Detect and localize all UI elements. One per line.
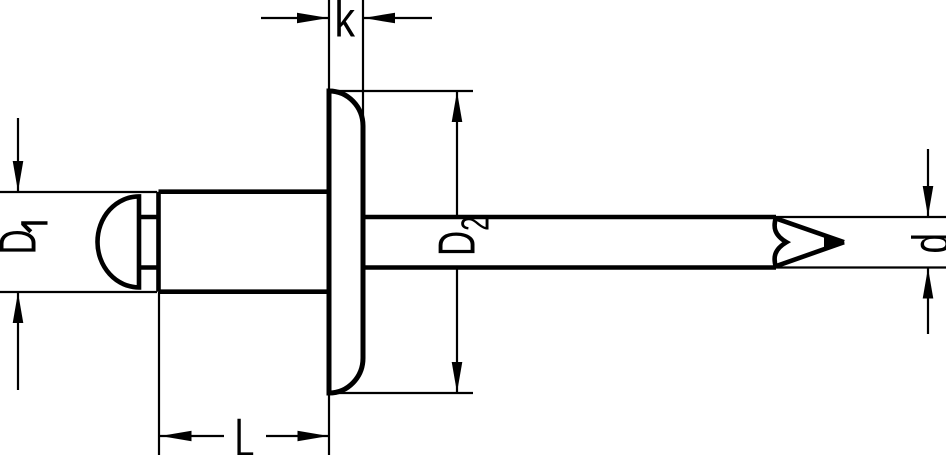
mandrel shaft top line [363,215,776,220]
extension line d top [776,216,946,218]
extension line D2 top [329,90,473,92]
svg-text:L: L [235,407,255,455]
dimension line L right segment [266,435,329,437]
arrowhead D1 top [13,161,24,192]
mandrel shaft bottom line [363,265,776,270]
arrowhead D2 top [452,92,463,123]
arrowhead L right [298,431,329,442]
rivet body bottom line [159,289,330,294]
mandrel stub top between dome and body [139,215,159,220]
extension line k-right [362,0,364,128]
mandrel head dome [97,196,139,287]
arrowhead D1 bottom [13,293,24,324]
svg-text:D: D [0,229,47,254]
rivet body top line [159,189,330,194]
dimension line D1 bottom arrow shaft [17,292,19,390]
dimension line D2 lower segment [456,267,458,393]
dimension line L left segment [160,435,224,437]
dimension line k left segment [261,17,329,19]
dimension line d bottom arrow shaft [927,268,929,335]
dimension line D1 top arrow shaft [17,118,19,192]
mandrel tip solid point [824,237,845,249]
dimension line D2 upper segment [456,91,458,216]
dimension line k right segment [363,17,432,19]
mandrel tip lower edge [777,242,844,266]
extension line k-left / flange left (thin, full height) [328,0,330,455]
extension line d bottom [776,266,946,268]
label D1 subscript 1 [21,221,47,233]
svg-text:k: k [335,0,356,47]
arrowhead d bottom [923,268,934,299]
svg-text:d: d [901,233,946,254]
extension line L left [158,292,160,455]
mandrel break notch brace [775,217,787,268]
dimension line d top arrow shaft [927,149,929,217]
extension line D1 bottom [0,291,157,293]
extension line D1 top [0,191,157,193]
rivet flange outline [329,91,363,393]
arrowhead k left [297,13,329,24]
arrowhead D2 bottom [452,362,463,393]
rivet body left end face [156,192,161,292]
extension line D2 bottom [329,392,473,394]
mandrel stub bottom between dome and body [139,265,159,270]
mandrel tip upper edge [777,219,844,242]
arrowhead L left [161,431,192,442]
arrowhead d top [923,186,934,217]
arrowhead k right [364,13,396,24]
